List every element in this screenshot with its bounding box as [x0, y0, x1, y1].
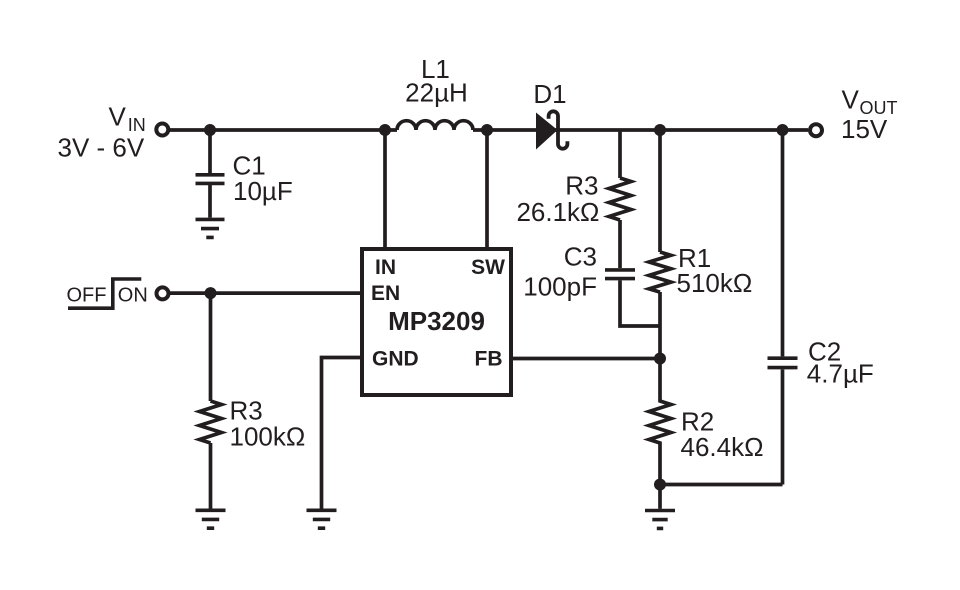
wire C3 to R1 branch	[620, 280, 660, 326]
svg-text:SW: SW	[471, 256, 505, 279]
terminal VOUT	[810, 124, 822, 136]
svg-text:EN: EN	[371, 282, 400, 305]
node junction R2 bottom	[654, 479, 666, 491]
svg-text:V: V	[842, 84, 860, 114]
node junction at R1 top	[654, 124, 666, 136]
ground (below C1)	[196, 219, 225, 237]
svg-text:100kΩ: 100kΩ	[230, 422, 306, 452]
on/off step symbol	[68, 279, 141, 308]
svg-text:MP3209: MP3209	[388, 306, 485, 336]
capacitor C1	[196, 175, 225, 184]
terminal VIN	[156, 124, 168, 136]
wire R2 to ground	[658, 490, 662, 509]
resistor R1	[649, 252, 671, 292]
wire GND pin	[322, 358, 363, 509]
wire R3/C3 branch upper	[618, 130, 622, 178]
wire R3 (100k) to ground	[209, 443, 213, 509]
ground (below GND pin)	[307, 510, 337, 528]
resistor R2	[649, 359, 671, 485]
svg-text:ON: ON	[118, 284, 148, 306]
svg-text:FB: FB	[475, 348, 503, 371]
svg-text:IN: IN	[375, 256, 396, 279]
resistor R3 (26.1k)	[609, 178, 631, 220]
wire SW pin	[485, 130, 489, 249]
ground (below R3 100k)	[196, 510, 226, 528]
ground (below R2)	[645, 511, 675, 529]
svg-text:10µF: 10µF	[233, 176, 293, 206]
diode D1	[536, 113, 558, 150]
svg-text:4.7µF: 4.7µF	[807, 359, 874, 389]
IC U1 MP3209 box	[362, 249, 511, 395]
capacitor C3	[605, 270, 635, 279]
inductor L1	[397, 121, 473, 130]
wire EN to R3 (100k)	[209, 293, 213, 401]
wire EN pin	[169, 291, 363, 295]
svg-text:OFF: OFF	[67, 284, 107, 306]
svg-text:510kΩ: 510kΩ	[677, 268, 753, 298]
wire R1 branch upper	[658, 130, 662, 252]
svg-text:V: V	[109, 102, 127, 132]
capacitor C2	[768, 358, 798, 367]
wire C2 branch lower	[781, 370, 785, 485]
node junction FB	[654, 353, 666, 365]
node junction at C2 top	[777, 124, 789, 136]
wire C1 branch upper	[208, 132, 212, 173]
terminal EN	[157, 287, 169, 299]
svg-text:C3: C3	[564, 242, 597, 272]
svg-text:GND: GND	[372, 348, 419, 371]
svg-text:26.1kΩ: 26.1kΩ	[516, 197, 599, 227]
wire C1 branch lower	[208, 185, 212, 218]
node junction right of L1	[481, 124, 493, 136]
wire C2 branch upper	[781, 130, 785, 356]
svg-text:22µH: 22µH	[405, 77, 468, 107]
wire top rail left (VIN terminal to inductor)	[168, 128, 397, 132]
wire R2 bottom to C2 bottom	[660, 483, 783, 487]
svg-text:3V - 6V: 3V - 6V	[58, 132, 145, 162]
svg-text:15V: 15V	[841, 114, 888, 144]
wire between R3 and C3	[618, 220, 622, 268]
svg-text:D1: D1	[533, 79, 566, 109]
svg-text:100pF: 100pF	[523, 271, 597, 301]
wire FB pin	[511, 357, 660, 361]
svg-text:46.4kΩ: 46.4kΩ	[681, 432, 764, 462]
node junction left of L1	[379, 124, 391, 136]
resistor R3 (100k)	[200, 401, 222, 443]
wire IN pin	[383, 130, 387, 249]
node junction at C1	[204, 124, 216, 136]
svg-text:R3: R3	[565, 170, 598, 200]
node junction EN	[205, 287, 217, 299]
wire R1 to FB node	[658, 292, 662, 359]
wire top rail right (inductor to VOUT terminal)	[473, 128, 808, 132]
